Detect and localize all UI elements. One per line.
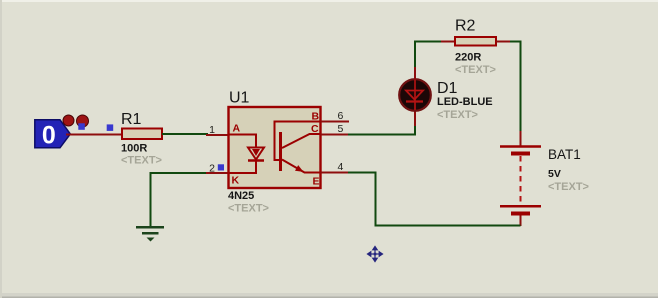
- node marker blue square B: [107, 124, 114, 130]
- wire R1 to U1 pin 1: [162, 133, 208, 135]
- internal LED triangle: [248, 148, 264, 160]
- wire U1 pin 5 to D1 cathode: [348, 124, 415, 135]
- probe indicator dot 2: [77, 115, 89, 127]
- svg-text:LED-BLUE: LED-BLUE: [437, 96, 493, 108]
- wire U1 pin 2 to ground corner: [151, 172, 209, 174]
- wire logic state to R1: [66, 134, 122, 136]
- pin 4 stub: [321, 172, 350, 174]
- R2 right stub: [496, 41, 512, 43]
- R2 left stub: [441, 41, 455, 43]
- transistor emitter line: [282, 160, 321, 173]
- logic state input P1 value 0: [35, 120, 71, 150]
- svg-text:<TEXT>: <TEXT>: [548, 181, 589, 193]
- svg-text:E: E: [313, 176, 320, 188]
- svg-text:K: K: [232, 175, 240, 187]
- internal LED cathode wire: [229, 161, 256, 173]
- wire D1 to R2 corner: [415, 42, 441, 68]
- internal base wire from B: [275, 122, 321, 161]
- wire R2 to battery positive: [510, 42, 521, 133]
- node marker blue square pin2: [218, 164, 224, 170]
- LED D1: [399, 79, 431, 111]
- svg-text:U1: U1: [229, 90, 250, 107]
- battery BAT1: [500, 131, 541, 226]
- svg-text:A: A: [233, 123, 241, 135]
- svg-text:1: 1: [209, 124, 215, 136]
- internal LED cathode bar: [248, 159, 264, 162]
- svg-text:220R: 220R: [455, 52, 481, 64]
- svg-text:4: 4: [338, 161, 344, 173]
- svg-text:<TEXT>: <TEXT>: [437, 109, 478, 121]
- probe indicator dot 1: [63, 115, 74, 126]
- wire down to ground: [150, 172, 152, 226]
- pin 1 stub of U1: [206, 134, 229, 136]
- resistor R1: [122, 129, 162, 140]
- svg-text:D1: D1: [437, 80, 458, 97]
- internal LED anode wire: [229, 135, 256, 148]
- pin 2 stub of U1: [206, 172, 229, 174]
- ground: [136, 227, 164, 241]
- optocoupler U1: [229, 107, 321, 188]
- svg-text:100R: 100R: [121, 143, 147, 155]
- svg-text:<TEXT>: <TEXT>: [228, 203, 269, 215]
- svg-text:R2: R2: [455, 18, 476, 35]
- svg-text:5: 5: [338, 123, 344, 135]
- pin 5 stub: [321, 134, 350, 136]
- D1 cathode stub: [414, 111, 416, 126]
- node marker blue square A: [78, 123, 85, 130]
- svg-text:R1: R1: [121, 111, 142, 128]
- pin 6 stub: [321, 121, 350, 123]
- transistor base bar: [279, 132, 282, 171]
- svg-text:4N25: 4N25: [228, 190, 254, 202]
- wire U1 pin 4 to battery negative: [348, 173, 521, 226]
- transistor collector line: [282, 134, 321, 148]
- svg-text:0: 0: [42, 122, 56, 150]
- svg-text:BAT1: BAT1: [548, 147, 581, 162]
- transistor emitter arrow: [295, 165, 304, 172]
- svg-text:2: 2: [209, 163, 215, 175]
- svg-text:<TEXT>: <TEXT>: [455, 64, 496, 76]
- D1 anode stub: [414, 66, 416, 80]
- internal LED arrow: [252, 149, 260, 156]
- svg-text:<TEXT>: <TEXT>: [121, 155, 162, 167]
- resistor R2: [455, 37, 496, 46]
- svg-text:6: 6: [338, 110, 344, 122]
- origin marker: [368, 247, 383, 262]
- svg-text:5V: 5V: [548, 168, 561, 180]
